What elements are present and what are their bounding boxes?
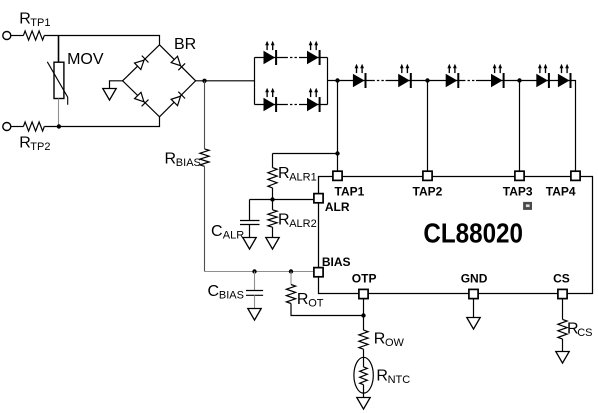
svg-text:TP2: TP2 xyxy=(30,141,50,153)
svg-text:CS: CS xyxy=(553,272,570,286)
svg-text:MOV: MOV xyxy=(67,51,104,68)
svg-text:OTP: OTP xyxy=(352,272,377,286)
svg-text:C: C xyxy=(211,223,223,240)
svg-text:R: R xyxy=(165,151,177,168)
svg-text:BR: BR xyxy=(174,36,196,53)
svg-text:NTC: NTC xyxy=(388,374,411,386)
svg-text:OW: OW xyxy=(385,337,405,349)
svg-text:R: R xyxy=(278,165,290,182)
svg-text:ALR: ALR xyxy=(223,230,244,242)
svg-text:BIAS: BIAS xyxy=(322,255,351,269)
svg-text:ALR: ALR xyxy=(325,200,350,214)
svg-text:R: R xyxy=(297,291,309,308)
svg-text:R: R xyxy=(19,135,31,152)
svg-text:BIAS: BIAS xyxy=(176,157,201,169)
svg-text:TAP3: TAP3 xyxy=(503,185,533,199)
svg-text:TP1: TP1 xyxy=(30,17,50,29)
svg-text:TAP4: TAP4 xyxy=(546,185,576,199)
svg-text:ALR2: ALR2 xyxy=(289,218,317,230)
svg-text:R: R xyxy=(376,368,388,385)
svg-text:CS: CS xyxy=(577,327,592,339)
svg-text:ALR1: ALR1 xyxy=(289,171,317,183)
svg-text:R: R xyxy=(374,331,386,348)
svg-text:TAP1: TAP1 xyxy=(335,185,365,199)
svg-text:GND: GND xyxy=(461,272,488,286)
svg-text:CL88020: CL88020 xyxy=(423,218,523,249)
svg-text:C: C xyxy=(208,283,220,300)
svg-text:BIAS: BIAS xyxy=(219,289,244,301)
svg-text:R: R xyxy=(19,10,31,27)
svg-text:TAP2: TAP2 xyxy=(413,185,443,199)
svg-text:OT: OT xyxy=(308,298,324,310)
svg-text:R: R xyxy=(278,211,290,228)
